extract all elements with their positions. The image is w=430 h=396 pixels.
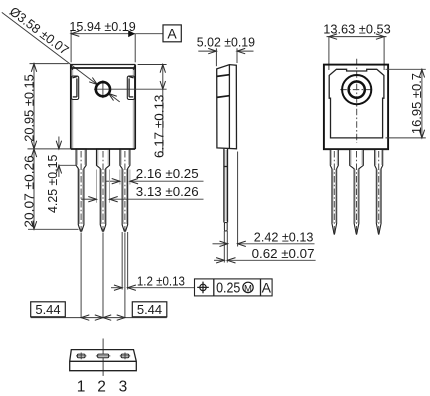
datum A box <box>163 25 181 42</box>
pin2 shoulder extension lines <box>97 170 110 203</box>
dimension 16.95 <box>386 69 426 138</box>
body bottom edge front view <box>71 148 135 150</box>
datum A leader <box>135 33 163 35</box>
svg-text:13.63 ±0.53: 13.63 ±0.53 <box>323 21 390 36</box>
inner shading line right <box>132 70 134 149</box>
top inner edge <box>72 67 133 69</box>
dimension 2.42 <box>213 230 315 247</box>
svg-text:4.25 ±0.15: 4.25 ±0.15 <box>45 155 60 213</box>
body outline front view <box>71 64 135 66</box>
bottom view centerline <box>102 339 104 376</box>
feature control frame <box>195 279 273 297</box>
svg-text:6.17 ±0.13: 6.17 ±0.13 <box>152 95 167 158</box>
svg-text:2.42 ±0.13: 2.42 ±0.13 <box>254 230 314 245</box>
svg-text:15.94 ±0.19: 15.94 ±0.19 <box>69 19 135 34</box>
hole outer circle back <box>342 75 371 104</box>
mounting hole front view <box>96 82 110 96</box>
svg-text:3.13 ±0.26: 3.13 ±0.26 <box>136 184 199 199</box>
dimension 5.44 line <box>31 317 167 319</box>
pin3 lead extension lines <box>122 232 128 290</box>
dimension 3.13 <box>81 184 203 202</box>
boxed 5.44 left <box>31 302 66 317</box>
dimension 0.62 <box>214 246 316 263</box>
dimension 6.17 <box>138 65 167 159</box>
svg-text:3: 3 <box>119 379 128 396</box>
hole crosshair horizontal + extension to 6.17 dim <box>94 88 167 90</box>
back view vertical centerline <box>356 59 358 143</box>
dimension 2.16 <box>106 166 204 184</box>
svg-text:1: 1 <box>77 379 86 396</box>
pin 1 back <box>330 149 338 234</box>
back view body bottom edge <box>324 148 388 150</box>
dimension 15.94 top <box>69 19 135 62</box>
svg-text:A: A <box>262 279 272 295</box>
leader line for hole diameter <box>2 12 98 84</box>
left slot <box>71 76 78 99</box>
svg-text:5.02 ±0.19: 5.02 ±0.19 <box>197 34 255 49</box>
corner chamfer right <box>133 65 135 70</box>
right slot <box>127 76 134 99</box>
pin 1 section <box>76 353 86 360</box>
dimension 20.07 left <box>22 149 79 229</box>
pin 2 section <box>96 354 110 358</box>
svg-text:1.2 ±0.13: 1.2 ±0.13 <box>137 274 185 289</box>
svg-text:2.16 ±0.25: 2.16 ±0.25 <box>136 166 199 181</box>
pin 3 front <box>120 149 130 231</box>
pin 1 front <box>76 149 86 231</box>
svg-text:5.44: 5.44 <box>35 302 60 317</box>
bottom view outline <box>70 350 137 371</box>
back view body <box>324 65 388 150</box>
hole crosshair vertical <box>102 80 104 98</box>
bottom view mid edge <box>70 360 137 362</box>
M circle modifier <box>243 282 253 292</box>
extension line body bottom left <box>28 148 71 150</box>
svg-text:0.25: 0.25 <box>216 280 240 296</box>
boxed 5.44 right <box>132 302 167 317</box>
leader second arrow lower-right <box>109 94 120 102</box>
lead extension lines below tip <box>224 231 227 263</box>
inner shading line left <box>72 70 74 149</box>
svg-text:M: M <box>244 283 252 294</box>
pin centerline extensions to 5.44 dim <box>80 233 82 318</box>
hole inner circle back <box>349 82 365 98</box>
pin 3 centerline <box>124 151 126 233</box>
datum A triangle <box>128 30 135 37</box>
side view body <box>217 65 237 149</box>
corner chamfer left <box>71 65 73 70</box>
metal tab outline <box>329 69 384 138</box>
pin 1 centerline <box>80 151 82 233</box>
pin 3 section <box>120 353 130 360</box>
dimension 4.25 <box>45 137 76 214</box>
leader arrow at hole upper-left <box>89 78 99 87</box>
svg-text:0.62 ±0.07: 0.62 ±0.07 <box>252 246 315 261</box>
svg-text:20.07 ±0.26: 20.07 ±0.26 <box>22 155 37 227</box>
pin 3 back <box>375 149 383 234</box>
svg-text:2: 2 <box>97 379 106 396</box>
pin 2 front <box>97 149 110 231</box>
dimension 5.02 <box>197 34 255 66</box>
slot edge lines side view <box>217 75 230 77</box>
pin 2 centerline <box>102 151 104 233</box>
side view lead <box>224 149 228 231</box>
back face extension line <box>237 152 239 247</box>
dimension 13.63 <box>323 21 390 70</box>
svg-text:16.95 ±0.7: 16.95 ±0.7 <box>409 73 424 134</box>
pin 2 back <box>350 149 364 234</box>
dimension 1.2 <box>111 274 195 291</box>
svg-text:5.44: 5.44 <box>137 302 162 317</box>
svg-text:20.95 ±0.15: 20.95 ±0.15 <box>22 74 37 142</box>
position symbol <box>200 284 206 290</box>
hole crosshair horizontal back <box>340 89 373 91</box>
dimension 20.95 left <box>22 64 69 149</box>
pin3 shoulder extension lines <box>120 170 130 185</box>
svg-text:A: A <box>167 25 177 41</box>
